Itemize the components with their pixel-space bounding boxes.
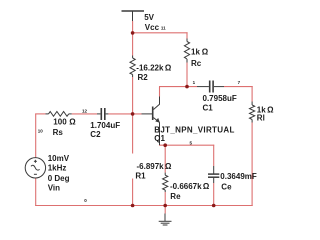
svg-text:Rs: Rs	[53, 128, 64, 137]
svg-text:Rl: Rl	[257, 114, 265, 123]
svg-text:Vcc: Vcc	[145, 23, 160, 32]
svg-text:Ce: Ce	[221, 182, 232, 191]
svg-text:1: 1	[193, 80, 196, 85]
svg-text:1kΩ: 1kΩ	[191, 48, 209, 57]
svg-text:Ω: Ω	[69, 117, 76, 126]
svg-text:0.3649mF: 0.3649mF	[220, 172, 257, 181]
svg-text:11: 11	[161, 26, 166, 31]
svg-text:1kHz: 1kHz	[48, 163, 67, 172]
svg-text:-6.897kΩ: -6.897kΩ	[137, 162, 172, 171]
svg-text:C1: C1	[203, 103, 214, 112]
svg-text:Q1: Q1	[154, 134, 165, 143]
svg-text:0 Deg: 0 Deg	[48, 174, 70, 183]
svg-text:0.7958uF: 0.7958uF	[203, 94, 237, 103]
svg-text:10: 10	[38, 128, 44, 133]
svg-text:12: 12	[82, 108, 88, 113]
svg-text:1.704uF: 1.704uF	[90, 121, 120, 130]
svg-text:Rc: Rc	[191, 59, 202, 68]
svg-text:0: 0	[84, 198, 87, 203]
svg-text:7: 7	[238, 80, 241, 85]
svg-text:-16.22kΩ: -16.22kΩ	[136, 64, 172, 73]
svg-text:R2: R2	[138, 73, 149, 82]
svg-text:100: 100	[53, 117, 67, 126]
svg-text:-0.6667kΩ: -0.6667kΩ	[170, 182, 210, 191]
svg-text:Vin: Vin	[48, 184, 60, 193]
svg-text:BJT_NPN_VIRTUAL: BJT_NPN_VIRTUAL	[154, 125, 234, 134]
svg-text:C2: C2	[90, 130, 101, 139]
svg-text:10mV: 10mV	[48, 154, 70, 163]
svg-text:Re: Re	[170, 192, 181, 201]
svg-text:R1: R1	[135, 172, 146, 181]
svg-text:5: 5	[190, 140, 193, 145]
svg-text:5V: 5V	[144, 13, 154, 22]
